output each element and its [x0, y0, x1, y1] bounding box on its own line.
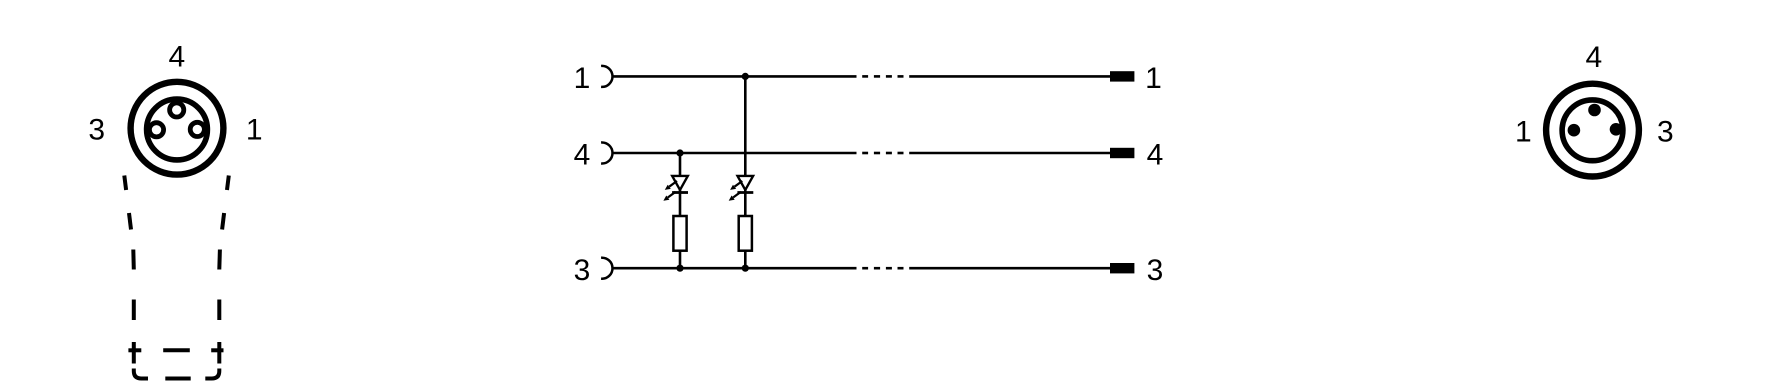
resistor R1	[673, 216, 686, 251]
svg-text:1: 1	[1145, 62, 1162, 95]
insert circle	[1562, 100, 1623, 161]
wire, branch A upper	[679, 153, 682, 216]
wire segment left, wire 4	[612, 152, 856, 155]
socket contact pin 1 (right)	[190, 122, 204, 136]
svg-text:4: 4	[1147, 139, 1164, 172]
socket contact arc, wire 1	[601, 66, 612, 87]
socket contact pin 3 (left)	[149, 123, 163, 137]
svg-text:1: 1	[574, 62, 591, 95]
wire, branch B upper	[744, 76, 747, 216]
svg-text:4: 4	[1585, 41, 1602, 74]
svg-text:3: 3	[1147, 254, 1164, 287]
inner end-cap dashed line	[128, 348, 141, 352]
svg-text:1: 1	[1515, 116, 1532, 149]
terminal pin (black), wire 1 right	[1110, 71, 1134, 81]
LED D2 triangle	[738, 176, 754, 190]
resistor R2	[739, 216, 752, 251]
svg-text:3: 3	[88, 113, 105, 146]
wire 3 (bottom)	[601, 258, 1110, 279]
junction node wire3/branch B	[742, 265, 749, 272]
svg-text:4: 4	[168, 41, 185, 74]
connector housing dashed outline (left)	[124, 176, 229, 379]
cable break dashes, wire 4	[862, 152, 868, 155]
svg-text:4: 4	[574, 139, 591, 172]
pin contact 1 (left, right connector)	[1568, 124, 1581, 137]
wire segment right, wire 4	[909, 152, 1110, 155]
wire segment right, wire 1	[909, 75, 1110, 78]
pin contact 3 (right, right connector)	[1610, 123, 1623, 136]
wire segment left, wire 1	[612, 75, 856, 78]
svg-text:3: 3	[574, 254, 591, 287]
LED D2 emission arrow 1	[730, 181, 742, 190]
wire, branch A lower	[679, 251, 682, 269]
socket contact arc, wire 4	[601, 143, 612, 164]
terminal pin (black), wire 4 right	[1110, 148, 1134, 158]
svg-text:3: 3	[1657, 116, 1674, 149]
svg-text:1: 1	[246, 113, 263, 146]
outer shell circle	[131, 82, 224, 175]
socket contact arc, wire 3	[601, 258, 612, 279]
junction node wire4/branch A	[676, 149, 683, 156]
cable break dashes, wire 3	[862, 267, 868, 270]
LED D1 cathode bar	[672, 191, 688, 194]
wire, branch B lower	[744, 251, 747, 269]
wire 1 (top)	[601, 66, 1110, 87]
LED D2 emission arrow 2	[729, 192, 741, 201]
junction node wire1/branch B	[742, 73, 749, 80]
connector J2 face view (male M8, right)	[1546, 84, 1639, 177]
LED D1 emission arrow 1	[665, 181, 677, 190]
socket contact pin 4 (top)	[170, 103, 184, 117]
terminal pin (black), wire 3 right	[1110, 263, 1134, 273]
cable break dashes, wire 1	[862, 75, 868, 78]
wire 4 (middle)	[601, 143, 1110, 164]
wire segment right, wire 3	[909, 267, 1110, 270]
LED D1 emission arrow 2	[663, 192, 675, 201]
pin contact 4 (top, right connector)	[1588, 104, 1601, 117]
connector J1 face view (female M8, left)	[131, 82, 224, 175]
LED D2 cathode bar	[737, 191, 753, 194]
insert circle	[147, 99, 208, 160]
junction node wire3/branch A	[676, 265, 683, 272]
outer shell circle	[1546, 84, 1639, 177]
LED D1 triangle	[672, 176, 688, 190]
wire segment left, wire 3	[612, 267, 856, 270]
